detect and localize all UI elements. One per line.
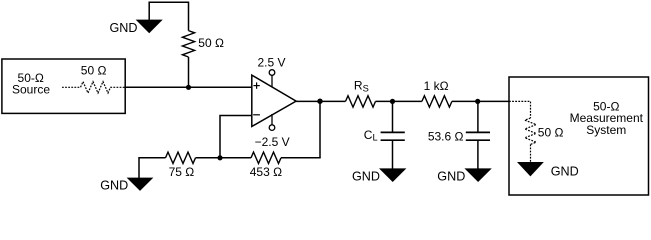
wire: CL to ground bbox=[392, 140, 394, 169]
op-amp negative supply pin -2.5 V bbox=[255, 114, 290, 149]
resistor 50 ohm (vertical, to GND rail) bbox=[182, 31, 224, 57]
wire: junction up to resistor bbox=[188, 57, 190, 87]
svg-text:75 Ω: 75 Ω bbox=[169, 165, 195, 179]
svg-text:50 Ω: 50 Ω bbox=[81, 64, 107, 78]
wire: dashed input inside measurement box bbox=[509, 101, 531, 118]
wire: dashed resistor to ground bbox=[530, 144, 532, 162]
resistor 1 kohm bbox=[422, 79, 452, 107]
ground (top left) bbox=[110, 20, 162, 35]
op-amp U1 bbox=[252, 75, 296, 126]
wire: feedback node up to inverting input bbox=[220, 116, 252, 158]
svg-text:GND: GND bbox=[110, 21, 138, 35]
svg-text:2.5 V: 2.5 V bbox=[257, 55, 285, 69]
svg-text:GND: GND bbox=[352, 170, 380, 184]
capacitor 53.6 ohm bbox=[428, 129, 490, 143]
svg-text:53.6 Ω: 53.6 Ω bbox=[428, 129, 464, 143]
wire: node down to CL bbox=[392, 101, 394, 131]
svg-text:Source: Source bbox=[12, 82, 50, 96]
box: 50-ohm Measurement System bbox=[509, 77, 649, 195]
svg-text:GND: GND bbox=[551, 165, 579, 179]
node: op-amp output junction bbox=[317, 99, 322, 104]
ground (under CL) bbox=[352, 169, 405, 184]
ground (bottom left) bbox=[100, 178, 152, 193]
svg-text:453 Ω: 453 Ω bbox=[250, 165, 282, 179]
wire: source box to op-amp + input bbox=[125, 86, 252, 88]
svg-text:1 kΩ: 1 kΩ bbox=[424, 79, 449, 93]
wire: resistor top to top rail and down to ground bbox=[149, 2, 188, 30]
wire: node down to 53.6 cap bbox=[477, 101, 479, 131]
svg-text:−2.5 V: −2.5 V bbox=[255, 135, 290, 149]
ground (inside measurement box) bbox=[518, 162, 579, 178]
box: 50-ohm Source bbox=[2, 59, 125, 113]
wire: output down to feedback row bbox=[319, 101, 321, 157]
svg-text:GND: GND bbox=[437, 169, 465, 183]
wire: 75 ohm to ground drop bbox=[139, 158, 166, 178]
wire: 53.6 cap to ground bbox=[477, 140, 479, 169]
resistor 453 ohm bbox=[250, 152, 282, 179]
svg-text:System: System bbox=[586, 123, 626, 137]
wire: 1k to measurement box bbox=[452, 100, 509, 102]
svg-text:50 Ω: 50 Ω bbox=[538, 126, 564, 140]
wire: feedback node row bbox=[196, 157, 252, 159]
wire: feedback row right segment bbox=[281, 157, 321, 159]
resistor 50 ohm (measurement internal, dashed) bbox=[525, 118, 564, 144]
node: junction at input bbox=[186, 85, 191, 90]
node: junction after 1k bbox=[475, 99, 480, 104]
op-amp positive supply pin 2.5 V bbox=[257, 55, 285, 87]
svg-text:GND: GND bbox=[100, 179, 128, 193]
node: feedback junction bbox=[217, 155, 222, 160]
svg-text:50 Ω: 50 Ω bbox=[198, 36, 224, 50]
resistor 75 ohm bbox=[166, 152, 196, 179]
resistor 50 ohm (source internal, dashed) bbox=[62, 64, 125, 93]
wire: op-amp output row bbox=[296, 100, 345, 102]
capacitor CL bbox=[364, 128, 405, 143]
node: junction after RS bbox=[390, 99, 395, 104]
ground (under 53.6) bbox=[437, 169, 491, 184]
wire: RS to 1k bbox=[376, 100, 422, 102]
resistor RS bbox=[346, 79, 376, 107]
